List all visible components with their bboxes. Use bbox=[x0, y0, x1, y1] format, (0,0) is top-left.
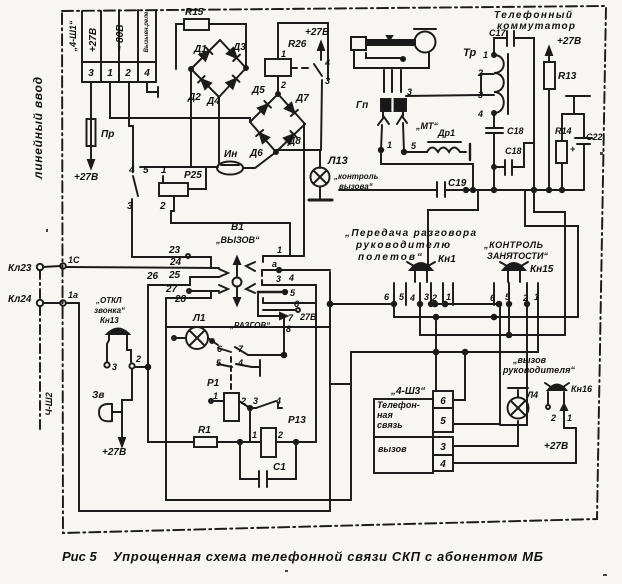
svg-text:4: 4 bbox=[477, 109, 483, 119]
dashed link P1 bbox=[230, 357, 232, 393]
wire vertical x320 outer right bbox=[329, 272, 331, 511]
svg-text:Др1: Др1 bbox=[437, 128, 455, 138]
lamp L4 bbox=[508, 388, 529, 419]
svg-text:25: 25 bbox=[168, 270, 181, 281]
svg-text:26: 26 bbox=[146, 271, 159, 282]
svg-text:~ 80В: ~ 80В bbox=[115, 25, 126, 52]
svg-text:Л1: Л1 bbox=[192, 313, 206, 324]
svg-text:вызова“: вызова“ bbox=[339, 182, 373, 191]
svg-text:С18: С18 bbox=[507, 126, 524, 136]
svg-text:ЗАНЯТОСТИ“: ЗАНЯТОСТИ“ bbox=[487, 251, 549, 261]
svg-text:Д5: Д5 bbox=[251, 85, 265, 96]
resistor R1 bbox=[194, 437, 242, 447]
svg-text:1: 1 bbox=[107, 68, 113, 79]
svg-text:2: 2 bbox=[124, 68, 131, 79]
capacitor C18a (horizontal plates) bbox=[486, 113, 503, 190]
svg-text:Упрощенная схема телефонной св: Упрощенная схема телефонной связи СКП с … bbox=[113, 549, 543, 564]
wire dash-dot below Kl24 bbox=[39, 270, 41, 432]
button Kn13 (bell off) bbox=[104, 329, 150, 370]
svg-text:2: 2 bbox=[135, 354, 141, 364]
svg-text:„Передача разговора: „Передача разговора bbox=[344, 228, 476, 239]
ground bar top bbox=[562, 96, 590, 114]
svg-text:5: 5 bbox=[143, 165, 149, 176]
svg-text:связь: связь bbox=[377, 420, 403, 430]
svg-text:Зв: Зв bbox=[92, 390, 104, 401]
svg-text:Д3: Д3 bbox=[232, 42, 246, 53]
diode D8 bbox=[284, 134, 294, 144]
svg-text:+: + bbox=[570, 144, 576, 154]
svg-text:2: 2 bbox=[240, 396, 246, 406]
relay P13 bbox=[240, 285, 316, 457]
relay P1 bbox=[209, 393, 252, 421]
svg-text:С18: С18 bbox=[505, 146, 522, 156]
svg-text:Л13: Л13 bbox=[327, 155, 348, 167]
svg-text:27В: 27В bbox=[299, 312, 317, 322]
svg-text:„ОТКЛ: „ОТКЛ bbox=[95, 296, 122, 305]
svg-text:R26: R26 bbox=[288, 39, 307, 50]
wire bridge1 left corner down bbox=[190, 69, 192, 167]
svg-text:„вызов: „вызов bbox=[512, 355, 547, 365]
B1 right contact rows bbox=[258, 256, 330, 355]
svg-text:+27В: +27В bbox=[74, 172, 98, 183]
scan specks bbox=[46, 152, 607, 576]
svg-text:Кн16: Кн16 bbox=[571, 384, 593, 394]
connector 4-Sh1 block bbox=[82, 10, 156, 82]
svg-text:„4-Ш1“: „4-Ш1“ bbox=[68, 20, 78, 52]
svg-text:Гп: Гп bbox=[356, 100, 368, 111]
svg-text:2: 2 bbox=[477, 68, 483, 78]
svg-text:1: 1 bbox=[567, 413, 572, 423]
handset bbox=[351, 29, 436, 92]
svg-text:коммутатор: коммутатор bbox=[497, 21, 575, 32]
wire vertical x166 bbox=[165, 298, 167, 500]
svg-text:2: 2 bbox=[431, 293, 437, 303]
button Kn1 bbox=[392, 262, 453, 306]
svg-text:Д2: Д2 bbox=[187, 92, 201, 103]
svg-text:3: 3 bbox=[440, 442, 446, 453]
svg-text:Телефонный: Телефонный bbox=[494, 9, 572, 21]
svg-text:Р25: Р25 bbox=[184, 170, 202, 181]
resistor R15 bbox=[176, 19, 246, 69]
svg-text:Кн1: Кн1 bbox=[438, 254, 456, 265]
capacitor C22 polarized bbox=[575, 114, 592, 190]
svg-text:а: а bbox=[272, 259, 277, 269]
resistor R13 bbox=[544, 47, 555, 190]
svg-text:4: 4 bbox=[275, 396, 281, 406]
svg-text:2: 2 bbox=[277, 430, 283, 440]
svg-text:„МТ“: „МТ“ bbox=[415, 121, 438, 131]
wire from Kl23 to B1 contact 24 bbox=[66, 267, 219, 268]
svg-text:+27В: +27В bbox=[88, 28, 99, 52]
bus wires under buttons bbox=[351, 302, 578, 425]
svg-text:3: 3 bbox=[478, 90, 483, 100]
svg-text:Телефон-: Телефон- bbox=[377, 400, 420, 410]
svg-text:С1: С1 bbox=[273, 462, 286, 473]
svg-text:Кл23: Кл23 bbox=[8, 263, 32, 274]
diode D4 bbox=[227, 79, 237, 89]
speaker Gp bbox=[378, 99, 407, 125]
svg-text:Д8: Д8 bbox=[287, 136, 301, 147]
svg-text:6: 6 bbox=[440, 396, 446, 407]
wire outer loop left bbox=[79, 303, 330, 511]
contacts 6-7 bbox=[218, 347, 286, 357]
svg-text:„ВЫЗОВ“: „ВЫЗОВ“ bbox=[215, 235, 260, 245]
svg-text:4: 4 bbox=[324, 58, 330, 68]
svg-text:Д7: Д7 bbox=[295, 93, 309, 104]
switch contact 4-3 (+27V) bbox=[314, 42, 324, 150]
svg-text:R14: R14 bbox=[555, 126, 572, 136]
diode D2 bbox=[201, 79, 211, 89]
svg-text:3: 3 bbox=[407, 87, 412, 97]
svg-text:линейный ввод: линейный ввод bbox=[31, 77, 45, 180]
svg-text:+27В: +27В bbox=[102, 447, 126, 458]
svg-text:+27В: +27В bbox=[544, 441, 568, 452]
svg-text:+27В: +27В bbox=[557, 36, 581, 47]
wire bridge1 bottom down bbox=[218, 97, 220, 163]
svg-text:R15: R15 bbox=[185, 7, 204, 18]
wire cell2 down to P25 contact 4 bbox=[129, 82, 133, 172]
neon In bbox=[217, 152, 276, 175]
svg-text:Д4: Д4 bbox=[206, 96, 220, 107]
svg-text:4: 4 bbox=[409, 293, 415, 303]
svg-text:3: 3 bbox=[127, 201, 133, 212]
svg-text:1: 1 bbox=[281, 49, 286, 59]
svg-text:2: 2 bbox=[280, 80, 286, 90]
svg-text:Кл24: Кл24 bbox=[8, 294, 32, 305]
switch B1 bbox=[219, 257, 255, 305]
wire right verticals bottom block bbox=[166, 327, 351, 500]
capacitor C18b bbox=[492, 143, 534, 175]
diode bridge D5-D8 bbox=[250, 92, 305, 154]
svg-text:1: 1 bbox=[387, 140, 392, 150]
svg-text:вызов: вызов bbox=[378, 444, 407, 454]
svg-text:3: 3 bbox=[325, 76, 330, 86]
wire cell4 stub bbox=[147, 82, 158, 97]
lamp L1 bbox=[172, 327, 218, 349]
svg-text:Пр: Пр bbox=[101, 129, 114, 140]
svg-text:5: 5 bbox=[440, 416, 446, 427]
svg-text:Кн15: Кн15 bbox=[530, 264, 554, 275]
bell Zv bbox=[99, 369, 132, 446]
resistor R14 bbox=[556, 114, 567, 190]
svg-text:Ин: Ин bbox=[224, 149, 237, 160]
svg-text:4: 4 bbox=[143, 68, 150, 79]
svg-text:1: 1 bbox=[483, 50, 488, 60]
diode D1 bbox=[200, 51, 210, 61]
svg-text:Д6: Д6 bbox=[249, 148, 263, 159]
B1 left contact rows bbox=[132, 254, 219, 298]
node Kl24 terminal bbox=[37, 300, 66, 306]
svg-text:„КОНТРОЛЬ: „КОНТРОЛЬ bbox=[483, 240, 544, 250]
svg-text:3: 3 bbox=[253, 396, 258, 406]
svg-text:С22: С22 bbox=[586, 132, 603, 142]
svg-text:3: 3 bbox=[88, 68, 94, 79]
svg-text:Вызывн.реле: Вызывн.реле bbox=[144, 11, 150, 52]
wires from bus down to Kn buttons bbox=[428, 190, 578, 335]
wires from buses down to 4-Sh3 bbox=[436, 304, 500, 424]
capacitor C19 bbox=[339, 182, 583, 197]
svg-text:Кн13: Кн13 bbox=[100, 316, 119, 325]
diode D6 bbox=[260, 133, 269, 143]
button Kn15 bbox=[494, 262, 538, 306]
svg-text:4: 4 bbox=[237, 358, 243, 368]
svg-text:1: 1 bbox=[534, 292, 539, 302]
dashed link R26 to contact bbox=[291, 67, 313, 69]
lamp L13 bbox=[309, 150, 332, 200]
svg-text:Л4: Л4 bbox=[526, 390, 538, 400]
capacitor C17 bbox=[494, 31, 534, 190]
svg-text:2: 2 bbox=[522, 293, 528, 303]
relay P25 assembly bbox=[140, 167, 290, 256]
svg-text:24: 24 bbox=[169, 257, 182, 268]
svg-text:„4-Ш3“: „4-Ш3“ bbox=[390, 386, 425, 397]
svg-text:Ч-Ш2: Ч-Ш2 bbox=[44, 392, 54, 415]
button Kn16 bbox=[545, 383, 576, 428]
svg-text:В1: В1 bbox=[231, 222, 244, 233]
wire cell1 to bridge2 bbox=[110, 82, 250, 121]
svg-text:руководителя“: руководителя“ bbox=[502, 365, 576, 375]
svg-text:4: 4 bbox=[128, 165, 135, 176]
diode bridge D1-D4 bbox=[189, 40, 248, 97]
svg-text:2: 2 bbox=[159, 201, 166, 212]
wire bridge2 bottom to switch line bbox=[276, 149, 321, 151]
wire left into Kn1 bbox=[330, 303, 394, 305]
svg-text:звонка“: звонка“ bbox=[94, 306, 125, 315]
svg-text:1: 1 bbox=[277, 245, 282, 255]
svg-text:Тр: Тр bbox=[463, 47, 476, 59]
svg-text:ная: ная bbox=[377, 410, 393, 420]
relay R26 coil bbox=[265, 23, 328, 94]
diode D3 bbox=[227, 48, 237, 58]
choke Dr1 and MT mic bbox=[379, 123, 473, 190]
wire bridge2 right corner down bbox=[303, 124, 305, 256]
svg-text:Рис 5: Рис 5 bbox=[62, 549, 97, 564]
svg-text:3: 3 bbox=[424, 292, 429, 302]
contact arm 4-3 of P25 bbox=[132, 176, 138, 257]
junction dots bus y190 bbox=[464, 188, 564, 192]
wire Gp pin3 to Tr tap3 bbox=[406, 95, 481, 96]
svg-text:С19: С19 bbox=[448, 178, 467, 189]
svg-text:4: 4 bbox=[439, 459, 446, 470]
wire from Kl24 right bbox=[66, 302, 79, 304]
svg-text:2: 2 bbox=[550, 413, 556, 423]
svg-text:1: 1 bbox=[161, 165, 167, 176]
svg-text:28: 28 bbox=[174, 294, 187, 305]
svg-text:+27В: +27В bbox=[305, 27, 329, 38]
svg-text:„контроль: „контроль bbox=[333, 172, 379, 181]
svg-text:3: 3 bbox=[112, 362, 117, 372]
contacts 5-4 bbox=[218, 360, 260, 376]
frame dash-dot border bbox=[62, 6, 606, 533]
svg-text:полетов“: полетов“ bbox=[358, 252, 422, 263]
svg-text:Р13: Р13 bbox=[288, 415, 306, 426]
wire vertical x146 to R1 bbox=[148, 285, 194, 442]
capacitor C1 bbox=[240, 442, 296, 487]
svg-text:Р1: Р1 bbox=[207, 378, 220, 389]
svg-text:8: 8 bbox=[286, 324, 291, 334]
svg-text:Д1: Д1 bbox=[193, 44, 207, 55]
wires from 4-Sh3 cells bbox=[453, 421, 576, 463]
diode D5 bbox=[258, 104, 268, 114]
svg-text:3: 3 bbox=[276, 274, 281, 284]
diode D7 bbox=[285, 103, 294, 113]
connector 4-Sh3 bbox=[374, 391, 453, 473]
svg-text:1С: 1С bbox=[68, 255, 80, 265]
svg-text:1: 1 bbox=[446, 292, 451, 302]
svg-text:R13: R13 bbox=[558, 71, 577, 82]
svg-text:1: 1 bbox=[252, 430, 257, 440]
svg-text:„РАЗГОВ“: „РАЗГОВ“ bbox=[229, 321, 270, 330]
svg-text:R1: R1 bbox=[198, 425, 211, 436]
fuse Pr bbox=[87, 82, 96, 168]
svg-text:1: 1 bbox=[213, 391, 218, 401]
node Kl23 terminal bbox=[37, 263, 66, 270]
svg-text:23: 23 bbox=[168, 245, 181, 256]
svg-text:1а: 1а bbox=[68, 290, 78, 300]
transformer Tr winding bbox=[481, 53, 508, 115]
svg-text:4: 4 bbox=[288, 273, 294, 283]
svg-text:С17: С17 bbox=[489, 28, 507, 38]
contact 3-4 of P1 bbox=[250, 401, 282, 442]
